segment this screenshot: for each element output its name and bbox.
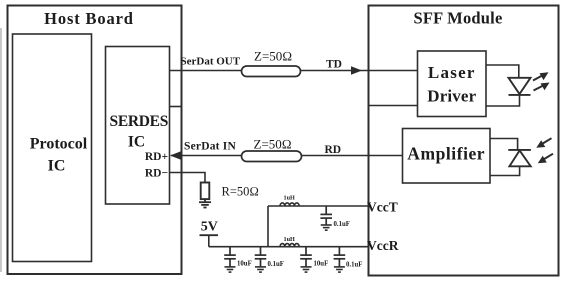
wire VccR rail [209, 246, 369, 248]
svg-text:IC: IC [128, 133, 145, 150]
ground under resistor [199, 202, 211, 207]
ground C3 [301, 267, 312, 272]
arrow TD [351, 66, 362, 74]
emission arrow 2 [534, 83, 550, 91]
svg-text:5V: 5V [201, 220, 218, 235]
svg-text:Driver: Driver [427, 86, 476, 105]
svg-text:Laser: Laser [428, 63, 476, 82]
incoming light arrow 1 [536, 138, 551, 148]
svg-text:SerDat OUT: SerDat OUT [181, 55, 241, 67]
svg-text:0.1uF: 0.1uF [334, 221, 350, 228]
svg-text:0.1uF: 0.1uF [346, 261, 362, 268]
host board box [8, 6, 182, 275]
SERDES IC box [106, 47, 170, 205]
svg-text:RD−: RD− [145, 167, 168, 179]
svg-text:RD+: RD+ [145, 151, 168, 163]
inductor L1 1uH [280, 203, 299, 206]
svg-text:1uH: 1uH [284, 194, 296, 201]
protocol IC label [30, 135, 88, 174]
svg-text:RD: RD [325, 144, 342, 156]
svg-text:Amplifier: Amplifier [407, 143, 485, 163]
emission arrow 1 [533, 72, 549, 80]
wire stub between SERDES edge and host board edge [170, 106, 182, 108]
wire amplifier to photodiode top [490, 139, 518, 150]
incoming light arrow 2 [538, 154, 553, 164]
laser driver box U1 [418, 51, 487, 117]
capacitor C4 0.1uF [334, 247, 346, 267]
svg-text:Host Board: Host Board [44, 9, 134, 28]
svg-text:0.1uF: 0.1uF [268, 261, 284, 268]
ground C4 [334, 267, 345, 272]
capacitor C2 0.1uF [255, 247, 267, 267]
svg-text:VccT: VccT [367, 200, 398, 215]
svg-text:SFF Module: SFF Module [414, 9, 503, 28]
5V supply terminal [200, 234, 219, 236]
wire RD- to resistor [170, 173, 206, 183]
arrow RD [170, 151, 181, 159]
svg-text:Z=50Ω: Z=50Ω [254, 48, 292, 63]
photodiode D2 [508, 150, 531, 166]
capacitor C1 10uF [224, 247, 236, 267]
wire TD (SerDat OUT from SERDES to laser driver) [170, 70, 418, 72]
svg-text:R=50Ω: R=50Ω [222, 184, 260, 198]
svg-text:Protocol: Protocol [30, 135, 88, 152]
transmission line Z2 Z=50ohm [242, 151, 302, 162]
svg-text:TD: TD [326, 59, 342, 71]
transmission line Z1 Z=50ohm [242, 66, 301, 77]
protocol IC box [13, 34, 92, 262]
svg-text:IC: IC [48, 158, 66, 175]
resistor R=50ohm [201, 183, 210, 200]
capacitor C5 0.1uF on VccT [320, 206, 332, 225]
svg-text:SERDES: SERDES [110, 113, 169, 130]
capacitor C3 10uF [300, 247, 312, 267]
wire photodiode bottom to amplifier [490, 166, 520, 175]
wire 5V down [208, 235, 210, 247]
svg-text:SerDat IN: SerDat IN [184, 141, 236, 153]
svg-text:Z=50Ω: Z=50Ω [254, 136, 292, 151]
wire LED bottom to laser driver [486, 95, 520, 106]
laser diode D1 [509, 78, 531, 95]
svg-text:10uF: 10uF [237, 260, 252, 267]
wire VccT rail [268, 205, 369, 207]
wire laser driver lower input [369, 105, 418, 107]
scan artifact left edge [0, 28, 2, 272]
ground C5 [321, 225, 332, 230]
wire laser driver to LED top [486, 65, 519, 78]
inductor L2 1uH [280, 244, 299, 247]
svg-text:10uF: 10uF [314, 261, 329, 268]
wire RD (from amplifier to SERDES SerDat IN) [171, 155, 403, 157]
wire rail connector [267, 206, 269, 247]
laser driver label [427, 63, 476, 106]
amplifier box U2 [403, 129, 491, 184]
SFF module box [369, 6, 559, 276]
svg-text:VccR: VccR [367, 238, 399, 253]
ground C1 [225, 267, 236, 272]
ground C2 [255, 267, 266, 272]
svg-text:1uH: 1uH [284, 236, 296, 243]
SERDES IC label [110, 113, 169, 151]
wire resistor to ground [204, 199, 206, 202]
